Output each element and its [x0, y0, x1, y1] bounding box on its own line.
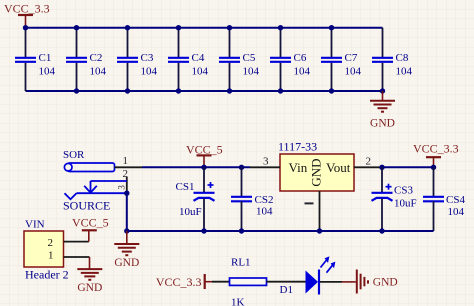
ground GND middle [114, 231, 139, 269]
junction node rail CS3 [379, 228, 384, 233]
capacitor C8 [372, 28, 413, 91]
svg-text:C5: C5 [243, 52, 256, 64]
capacitor C5 [219, 28, 260, 91]
svg-text:C6: C6 [294, 52, 307, 64]
ground GND header [77, 257, 102, 294]
svg-text:3: 3 [117, 185, 127, 190]
svg-text:104: 104 [345, 66, 362, 78]
svg-text:CS2: CS2 [255, 194, 274, 206]
connector SOURCE [63, 168, 128, 212]
svg-text:104: 104 [141, 66, 158, 78]
junction node C3 bottom [125, 88, 130, 93]
wire Vout to VCC_3.3 node [382, 166, 434, 168]
junction node C7 top [329, 25, 334, 30]
svg-text:C8: C8 [396, 52, 409, 64]
svg-text:104: 104 [294, 66, 311, 78]
svg-text:1K: 1K [231, 297, 245, 306]
junction node C7 bottom [329, 88, 334, 93]
svg-text:C2: C2 [90, 52, 103, 64]
junction node SOURCE [124, 191, 129, 196]
svg-text:GND: GND [370, 118, 395, 130]
svg-text:104: 104 [90, 66, 107, 78]
wire top rail [26, 27, 383, 29]
svg-text:104: 104 [243, 66, 260, 78]
capacitor C4 [168, 28, 209, 91]
svg-text:C3: C3 [141, 52, 154, 64]
capacitor CS1 [176, 167, 215, 231]
junction node rail regulator GND [317, 228, 322, 233]
svg-text:C1: C1 [39, 52, 52, 64]
svg-text:2: 2 [366, 156, 372, 168]
svg-text:Vout: Vout [326, 160, 351, 175]
power port VCC_3.3 right [413, 142, 459, 168]
capacitor CS3 [372, 167, 417, 231]
svg-text:D1: D1 [280, 284, 293, 296]
ground GND top right [370, 91, 395, 130]
power port VCC_5 header [72, 216, 109, 242]
junction node rail CS1 [201, 228, 206, 233]
svg-text:1: 1 [123, 155, 129, 167]
svg-text:VCC_3.3: VCC_3.3 [156, 275, 202, 289]
svg-text:VIN: VIN [25, 218, 45, 230]
capacitor CS4 [423, 167, 465, 231]
svg-text:10uF: 10uF [394, 198, 417, 210]
svg-text:Header 2: Header 2 [25, 268, 69, 282]
svg-text:3: 3 [263, 156, 269, 168]
junction node C5 bottom [227, 88, 232, 93]
capacitor C3 [117, 28, 158, 91]
wire bottom rail of bypass bank [26, 90, 383, 92]
junction node VCC_5 / CS1 [201, 165, 206, 170]
svg-text:CS3: CS3 [394, 185, 413, 197]
svg-text:104: 104 [256, 206, 273, 218]
svg-text:VCC_5: VCC_5 [72, 216, 109, 230]
svg-text:C7: C7 [345, 52, 358, 64]
capacitor CS2 [231, 167, 273, 231]
wire D1 to ground [320, 281, 342, 283]
wire middle ground rail [127, 230, 434, 232]
wire RL1 to D1 [267, 281, 306, 283]
junction node C2 top [74, 25, 79, 30]
junction node CS3 top [379, 165, 384, 170]
svg-text:10uF: 10uF [179, 206, 202, 218]
svg-text:2: 2 [48, 237, 54, 249]
power port VCC_3.3 LED row [156, 274, 212, 289]
svg-text:104: 104 [192, 66, 209, 78]
ground GND LED row [342, 270, 398, 294]
junction node C4 bottom [176, 88, 181, 93]
power port VCC_5 middle [186, 143, 223, 168]
wire SOR pin1 to regulator Vin [142, 166, 250, 168]
junction node C1 top [23, 25, 28, 30]
svg-text:SOR: SOR [63, 149, 85, 161]
junction node C2 bottom [74, 88, 79, 93]
svg-text:VCC_3.3: VCC_3.3 [413, 142, 459, 156]
capacitor C2 [66, 28, 107, 91]
svg-text:C4: C4 [192, 52, 205, 64]
power port VCC_3.3 top left [4, 2, 50, 28]
svg-text:104: 104 [448, 206, 465, 218]
junction node C3 top [125, 25, 130, 30]
junction node C4 top [176, 25, 181, 30]
junction node C6 bottom [278, 88, 283, 93]
svg-text:VCC_3.3: VCC_3.3 [4, 2, 50, 16]
svg-text:SOURCE: SOURCE [63, 199, 110, 213]
resistor RL1 [212, 257, 267, 306]
junction node C6 top [278, 25, 283, 30]
junction node CS4 top [431, 165, 436, 170]
svg-text:CS1: CS1 [176, 181, 195, 193]
svg-text:104: 104 [396, 66, 413, 78]
junction node C8 bottom [380, 88, 385, 93]
junction node C5 top [227, 25, 232, 30]
junction node CS2 top [239, 165, 244, 170]
junction node rail left [124, 228, 129, 233]
wire SOURCE down to ground rail [126, 193, 128, 231]
svg-text:GND: GND [114, 257, 139, 269]
svg-text:RL1: RL1 [231, 257, 251, 269]
LED D1 [280, 256, 336, 296]
svg-text:GND: GND [309, 158, 324, 186]
svg-text:Vin: Vin [289, 160, 308, 175]
svg-text:CS4: CS4 [446, 194, 465, 206]
junction node rail CS2 [239, 228, 244, 233]
capacitor C6 [270, 28, 311, 91]
capacitor C1 [15, 28, 56, 91]
connector VIN Header 2 [24, 218, 90, 281]
svg-text:1: 1 [48, 249, 54, 261]
capacitor C7 [321, 28, 362, 91]
svg-text:GND: GND [373, 277, 398, 289]
voltage regulator U1 1117-33 [250, 140, 382, 232]
svg-text:1117-33: 1117-33 [278, 140, 317, 154]
fuse SOR [63, 149, 142, 172]
svg-text:104: 104 [39, 66, 56, 78]
svg-text:GND: GND [77, 282, 102, 294]
